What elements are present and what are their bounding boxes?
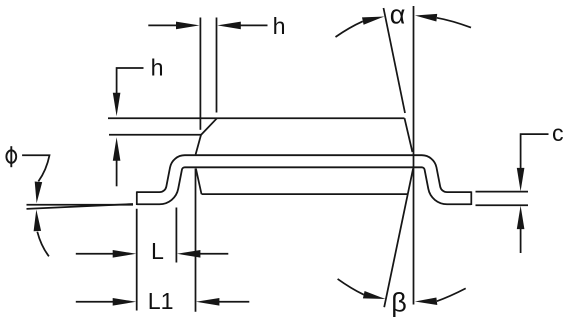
lead strip (gull-wing, outer black band): [137, 161, 472, 198]
L dim: left arrow shaft: [76, 253, 114, 255]
svg-text:L1: L1: [148, 288, 174, 314]
vertical reference line (alpha/beta): [413, 6, 415, 305]
alpha slant line: [384, 8, 406, 113]
body bottom line: [202, 193, 408, 195]
L1 dim: left arrow shaft: [76, 301, 114, 303]
phi arc arrowhead (up): [34, 210, 42, 232]
alpha left curved arrowhead: [362, 17, 384, 25]
L1 extension line C (body edge): [195, 169, 197, 312]
h top dim: right arrow shaft: [240, 24, 268, 26]
h top dim: left arrow shaft: [148, 24, 177, 26]
h left dim: down arrowhead: [113, 93, 121, 117]
L extension line B (foot heel): [175, 208, 177, 263]
lead strip (inner white fill): [137, 161, 472, 198]
svg-text:α: α: [390, 0, 406, 30]
h left dim: leader: [117, 68, 144, 94]
c dim: down arrowhead: [517, 168, 525, 192]
body lower-right edge + beta slant line: [384, 169, 413, 308]
L1 dim: right arrow shaft: [219, 301, 250, 303]
right foot tip cap: [470, 191, 472, 205]
phi lower arc: [37, 232, 49, 257]
L1 dim: right arrowhead: [196, 298, 220, 306]
seating plane line: [27, 204, 134, 206]
h top dim: extension line 2: [216, 18, 218, 113]
h left dim: lower arrow shaft: [116, 160, 118, 187]
beta right curved arrow arc: [437, 288, 466, 301]
body top line (extended left for h dim): [108, 117, 405, 119]
L dim: right arrowhead: [177, 250, 201, 258]
L1 dim: left arrowhead: [113, 298, 137, 306]
c dim: lower arrow shaft: [520, 228, 522, 253]
c dim: top extension line: [476, 191, 529, 193]
body left chamfer (h x 45): [201, 118, 217, 135]
c dim: bottom extension line: [476, 204, 529, 206]
svg-text:c: c: [552, 120, 564, 146]
body lower-left draft edge: [196, 169, 202, 195]
alpha right curved arrow arc: [437, 18, 471, 28]
beta left curved arrowhead: [363, 291, 386, 299]
h top dim: extension line 1: [199, 18, 201, 130]
phi leader: [22, 155, 49, 181]
beta left curved arrow arc: [338, 279, 364, 295]
h top dim: right arrowhead: [217, 22, 241, 30]
h top dim: left arrowhead: [176, 22, 200, 30]
beta right curved arrowhead: [415, 298, 437, 306]
chamfer-bottom extension line: [109, 134, 201, 136]
L dim: left arrowhead: [113, 250, 137, 258]
L dim: right arrow shaft: [200, 253, 229, 255]
phi leader arrowhead (down): [35, 182, 43, 204]
svg-text:β: β: [391, 288, 407, 318]
left foot tip cap: [136, 191, 138, 205]
L extension line A (foot tip): [136, 209, 138, 311]
svg-text:L: L: [151, 238, 164, 264]
c dim: upper arrow shaft + leader to label: [521, 134, 549, 169]
h left dim: up arrowhead: [113, 137, 121, 161]
phi slant line (foot angle): [27, 204, 134, 209]
c dim: up arrowhead: [517, 206, 525, 230]
alpha right curved arrowhead: [415, 14, 437, 22]
svg-text:h: h: [273, 13, 286, 39]
label phi (drawn: circle + stem): [6, 146, 16, 167]
svg-text:h: h: [151, 55, 164, 81]
alpha left curved arrow arc: [336, 21, 363, 37]
body upper-left draft edge: [196, 135, 201, 155]
body upper-right draft edge: [405, 118, 413, 152]
